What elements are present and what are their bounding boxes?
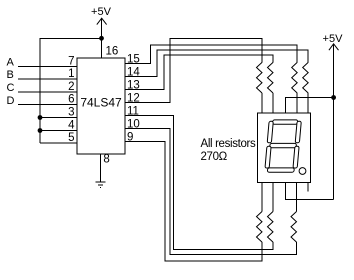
7-segment digit <box>265 120 302 172</box>
svg-text:5: 5 <box>68 132 74 144</box>
wire +5V to input tie line <box>40 38 102 143</box>
svg-text:3: 3 <box>68 107 74 119</box>
junction dot pin 4 tie <box>38 128 43 133</box>
svg-text:8: 8 <box>103 154 109 166</box>
junction dot +5V node <box>99 36 104 41</box>
resistor R2 <box>268 62 274 93</box>
junction dot pin 3 tie <box>38 115 43 120</box>
wire tie to pin 5 <box>40 142 77 144</box>
wire R2 to display <box>272 93 274 113</box>
svg-text:All resistors: All resistors <box>201 138 256 150</box>
wire R1 to display <box>261 93 263 113</box>
svg-text:1: 1 <box>68 68 74 80</box>
svg-text:D: D <box>7 95 15 107</box>
wire tie to pin 3 <box>40 117 77 119</box>
wire pin 15 to resistor R3 top <box>125 45 297 64</box>
wire pin 10 to resistor R7 bottom <box>125 129 297 255</box>
resistor R7 <box>291 212 297 243</box>
svg-text:270Ω: 270Ω <box>201 151 228 163</box>
wire tie to pin 4 <box>40 130 77 132</box>
resistor R1 <box>257 62 263 93</box>
decimal point pin stub <box>307 183 309 192</box>
wire display to R7 <box>296 183 298 212</box>
wire B to pin 1 <box>18 78 77 80</box>
svg-text:+5V: +5V <box>91 6 112 18</box>
pin 8 wire <box>99 154 101 182</box>
display DIS1 body <box>258 113 311 183</box>
svg-text:A: A <box>7 57 15 69</box>
junction dot anode/+5V rail <box>331 95 336 100</box>
wire pin 11 to resistor R6 bottom <box>125 116 273 250</box>
wire D to pin 6 <box>18 104 77 106</box>
resistor R4 <box>303 62 309 93</box>
svg-text:4: 4 <box>68 120 75 132</box>
decimal point <box>299 168 306 175</box>
svg-text:16: 16 <box>106 46 119 58</box>
svg-text:2: 2 <box>68 81 74 93</box>
+5V arrow (right) <box>329 44 339 50</box>
svg-text:B: B <box>7 69 14 81</box>
svg-text:7: 7 <box>68 56 74 68</box>
svg-text:C: C <box>7 82 15 94</box>
wire pin 9 to resistor R5 bottom <box>125 142 262 262</box>
wire A to pin 7 <box>18 66 77 68</box>
svg-text:6: 6 <box>68 94 74 106</box>
resistor R3 <box>292 62 298 93</box>
wire pin 12 to resistor R1 top <box>125 39 262 103</box>
resistor R5 <box>257 212 263 243</box>
wire +5V down to pin 16 <box>101 18 103 58</box>
wire display to R5 <box>261 183 263 212</box>
wire R4 to display <box>307 93 309 113</box>
wire display common anode top to +5V rail <box>285 98 333 113</box>
wire pin 14 to resistor R4 top <box>125 50 308 77</box>
wire display common anode bottom to +5V rail <box>285 183 333 200</box>
+5V arrow (left) <box>97 18 107 24</box>
IC U1 74LS47 body <box>77 58 125 154</box>
svg-text:+5V: +5V <box>323 33 344 45</box>
resistor R6 <box>268 212 274 243</box>
+5V rail wire <box>333 44 335 200</box>
svg-text:74LS47: 74LS47 <box>80 96 122 110</box>
wire pin 13 to resistor R2 top <box>125 55 273 89</box>
wire display to R6 <box>272 183 274 212</box>
ground <box>96 182 106 188</box>
wire R3 to display <box>296 93 298 113</box>
wire C to pin 2 <box>18 91 77 93</box>
